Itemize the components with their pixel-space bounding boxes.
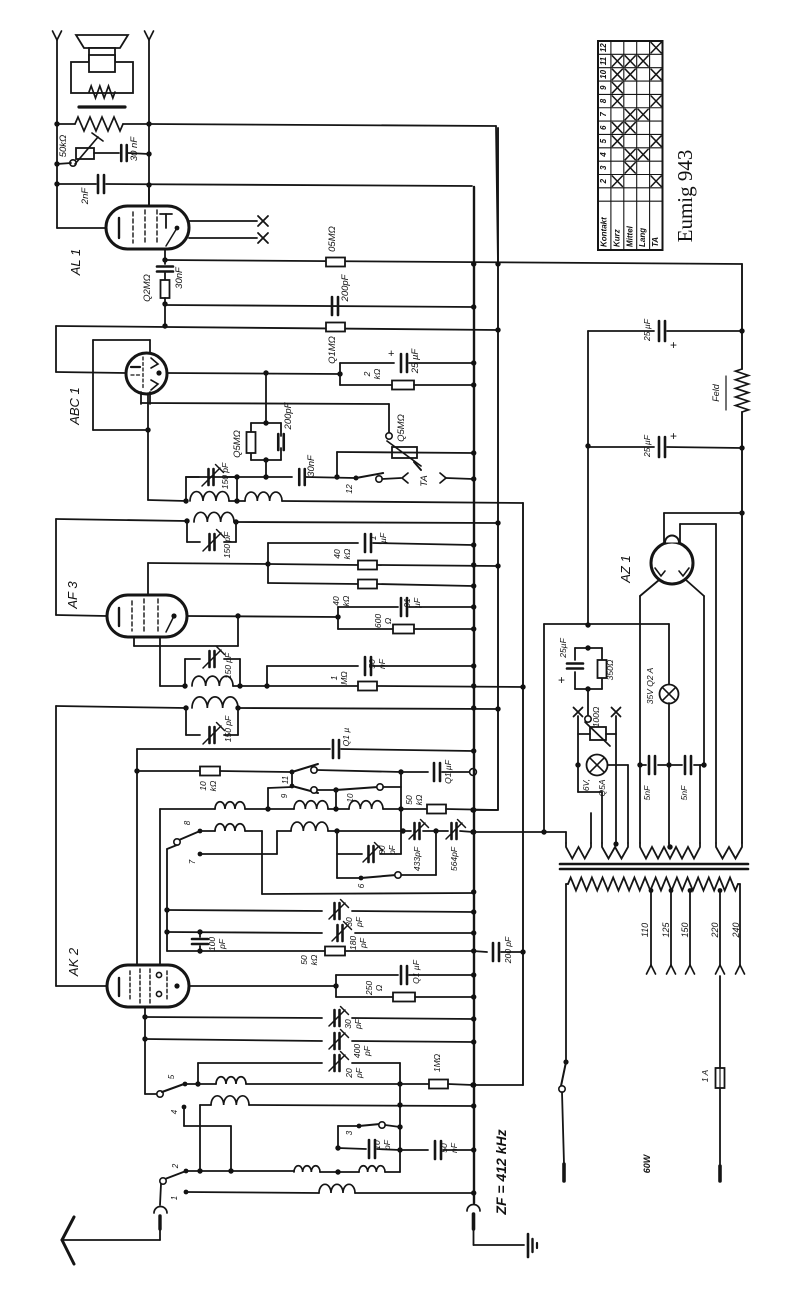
IF1 secondary trimmer box [187,521,236,542]
IF1 trimmer box [186,477,237,501]
junction [265,561,270,566]
svg-text:9: 9 [599,85,608,90]
svg-text:100Ω: 100Ω [591,706,601,727]
switch 5 [157,1082,188,1098]
wire AK2 frame left [136,749,138,965]
svg-text:1: 1 [170,1196,179,1200]
ant coil 1 [185,1077,400,1084]
junction [54,121,59,126]
tube ABC1 grid [131,357,143,390]
wire [383,786,401,788]
svg-text:+: + [670,338,677,352]
capacitor 30nF AL1 [157,260,173,280]
svg-text:100: 100 [207,937,217,951]
junction [265,806,270,811]
capacitor 30nF [299,469,355,485]
terminal 2 [184,1169,189,1174]
junction [471,748,476,753]
junction [471,1082,476,1087]
IF1 coil b [245,492,282,501]
label 25µF [642,318,677,352]
contact table frame [598,41,663,250]
anode box [335,975,337,997]
IF2 trimmer box [185,659,240,686]
capacitor 25µF [588,437,742,457]
junction [54,181,59,186]
junction [233,519,238,524]
junction [237,683,242,688]
junction [184,518,189,523]
wire row 2-line [186,1170,294,1172]
junction [471,1190,476,1195]
svg-text:9: 9 [280,793,289,798]
IF2 secondary trimmer box [186,708,238,735]
wire AF3 top [148,563,268,564]
svg-text:Eumig 943: Eumig 943 [673,150,697,243]
svg-text:50: 50 [367,659,377,669]
wire [262,831,473,894]
wire AZ1 anode top [664,513,742,545]
capacitor 100pF [192,932,208,951]
wire ABC1 left loop [56,326,126,373]
svg-text:ABC 1: ABC 1 [67,387,82,426]
svg-text:20: 20 [344,1068,354,1079]
junction [162,257,167,262]
svg-text:7: 7 [188,859,197,864]
capacitor 200pF [331,297,334,315]
wire grid AL1 [57,227,106,229]
junction [234,498,239,503]
trimmer 150pF [208,727,211,743]
label 25µF [388,348,421,375]
trafo tap forks [647,965,745,974]
wire [335,790,337,809]
xmark heater [574,708,621,717]
wire 1µF line [268,543,358,583]
label 25µF [642,429,677,458]
wire [446,478,473,479]
svg-text:6V,: 6V, [581,779,591,791]
svg-text:+: + [558,673,565,687]
junction [397,1147,402,1152]
svg-text:11: 11 [599,56,608,65]
trafo secondary 1 [566,813,591,859]
wire [352,911,473,912]
junction [398,769,403,774]
trimmer 30pF [333,1010,336,1026]
junction [337,371,342,376]
label Feld [711,376,726,410]
resistor 40kΩ b [268,580,473,589]
junction [471,382,476,387]
resistor 250Ω [336,993,473,1002]
trimmer 400pF [333,1033,336,1049]
svg-text:600: 600 [373,614,383,628]
mains switch [559,1059,569,1164]
junction [164,929,169,934]
wire [56,519,497,615]
junction [334,828,339,833]
svg-text:AZ 1: AZ 1 [618,555,633,583]
junction [471,1016,476,1021]
junction [333,787,338,792]
wire AK2 cathode [145,1007,158,1094]
bus second [497,128,499,810]
svg-text:400: 400 [352,1044,362,1058]
wire B+ top [741,264,743,369]
IF2 secondary coil [192,697,238,708]
wire screen loop [134,616,238,646]
junction [162,301,167,306]
contact table labels [599,217,660,247]
junction [471,705,476,710]
svg-text:Q1 µF: Q1 µF [443,759,453,784]
junction [739,328,744,333]
junction [471,360,476,365]
junction [585,443,590,448]
svg-text:5nF: 5nF [642,785,652,800]
wire [352,1041,473,1042]
wire lamp right [608,765,629,843]
potentiometer 50kΩ [70,133,103,166]
terminal 1 [184,1190,319,1195]
svg-text:11: 11 [281,776,290,784]
wire [317,770,401,772]
junction [471,1103,476,1108]
wire [401,831,436,875]
svg-text:µF: µF [378,532,388,543]
capacitor 0,1µF [401,763,470,781]
wire [668,703,670,843]
wire AL1 pin x [189,233,268,243]
junction [197,929,202,934]
svg-text:200pF: 200pF [283,401,294,430]
trafo tap 220 [718,888,723,965]
osc coil 2a [215,824,245,831]
svg-text:6: 6 [357,883,366,888]
osc coil 1c [349,801,383,809]
svg-text:1: 1 [329,675,339,680]
junction [335,1169,340,1174]
wire [741,513,743,843]
svg-text:01: 01 [402,598,412,608]
resistor 0,2MΩ [161,280,170,304]
wire [473,1084,523,1086]
svg-text:2: 2 [171,1163,180,1169]
junction [146,182,151,187]
wire 20pF row [198,1063,322,1084]
junction [520,949,525,954]
wire [291,772,293,784]
junction [197,948,202,953]
trimmer 150pF [208,534,211,550]
svg-text:kΩ: kΩ [208,780,218,791]
svg-text:10: 10 [198,781,208,791]
resistor speaker field tap [57,117,149,131]
wire [380,853,401,855]
wire row 400pF [145,1039,322,1041]
wire [741,412,743,513]
wire [268,787,292,809]
wire right speaker lead [145,31,154,206]
svg-text:2: 2 [599,178,608,184]
svg-text:125: 125 [661,922,671,938]
svg-text:220: 220 [710,922,720,938]
trafo primary [566,878,740,1063]
capacitor 5nF [648,756,651,774]
junction [433,828,438,833]
svg-text:AL 1: AL 1 [68,249,83,277]
junction [471,604,476,609]
junction [520,684,525,689]
junction [666,762,671,767]
wire ABC1 top box [93,340,150,430]
capacitor 2nF [57,175,472,193]
svg-text:MΩ: MΩ [339,671,349,685]
ant coil 4 [319,1184,355,1193]
resistor 0,5MΩ diode load [247,432,256,453]
wire [382,478,401,479]
wire [352,1018,473,1019]
junction [183,705,188,710]
wire [337,1126,339,1148]
trimmer 180pF [336,925,339,941]
junction [667,844,672,849]
wire row 30pF [145,1017,322,1018]
junction [471,261,476,266]
svg-text:35V Q2 A: 35V Q2 A [645,667,655,704]
junction [541,829,546,834]
wire 80pF row [337,831,362,878]
svg-text:pF: pF [354,916,364,928]
wire ABC1 cathode drop [147,394,149,500]
wire row y951 [167,950,325,952]
wire 200pF line [165,305,473,307]
svg-text:3: 3 [599,165,608,170]
resistor 2kΩ [340,381,473,390]
junction [575,762,580,767]
junction [471,930,476,935]
svg-text:433pF: 433pF [412,846,422,871]
junction [739,445,744,450]
svg-text:Kontakt: Kontakt [599,217,608,247]
junction [397,1081,402,1086]
mains lead [562,1164,566,1181]
svg-text:pF: pF [358,937,368,949]
tube AF3 cathode [118,608,120,626]
junction [263,474,268,479]
wire [587,331,589,446]
junction [471,829,476,834]
connector [154,1207,167,1230]
capacitor 30nF tone [121,145,149,161]
bus connector [467,1205,524,1246]
svg-text:8: 8 [599,98,608,103]
tube AK2 envelope [107,965,189,1007]
junction [235,705,240,710]
IF1 secondary coil [194,512,234,522]
osc row2 wire [200,830,404,832]
switch 9 [290,784,318,794]
junction [164,907,169,912]
junction [739,510,744,515]
tube ABC1 diode plates [151,358,162,390]
svg-text:Q1 µ: Q1 µ [341,728,351,747]
svg-text:Feld: Feld [711,383,721,402]
trimmer 150pF [208,651,211,667]
resistor 10kΩ [137,767,290,776]
junction [197,1168,202,1173]
tube AZ1 envelope [651,542,693,584]
wire [355,932,473,934]
svg-text:kΩ: kΩ [342,548,352,559]
svg-text:25µF: 25µF [558,637,568,658]
junction [471,562,476,567]
mains lead 2 [718,1166,722,1181]
wire AZ1 cath right [686,580,704,765]
resistor 0,5MΩ [326,258,345,267]
junction [398,806,403,811]
tube ABC1 cathode [131,366,140,368]
wire [320,1171,359,1173]
svg-text:kΩ: kΩ [372,368,382,379]
junction [195,1081,200,1086]
tube AK2 anode [174,983,179,988]
svg-text:30nF: 30nF [174,266,185,289]
svg-text:10: 10 [599,69,608,78]
output transformer [71,55,133,107]
junction [470,829,475,834]
junction [495,520,500,525]
switch 8 drop [167,845,177,951]
terminal 4 [182,1105,231,1171]
junction [637,762,642,767]
svg-text:40: 40 [332,549,342,559]
wire net [265,373,267,423]
tube AL1 grids [133,210,157,245]
svg-text:6: 6 [599,125,608,130]
tube AK2 cathode [118,978,120,996]
svg-text:Q5MΩ: Q5MΩ [396,414,407,442]
ant coil 3a [294,1166,320,1172]
wire center tap [668,843,670,848]
junction [235,613,240,618]
junction [145,427,150,432]
svg-text:350Ω: 350Ω [605,659,615,680]
switch 2 [160,1171,186,1184]
svg-text:kΩ: kΩ [309,954,319,965]
svg-text:40: 40 [331,596,341,606]
junction [495,706,500,711]
wire detector line [141,403,389,433]
svg-text:+: + [388,348,394,360]
svg-text:30nF: 30nF [306,454,317,477]
junction [471,807,476,812]
wire [587,446,589,625]
tube AL1 anode [160,214,179,246]
junction [471,972,476,977]
capacitor 50nF [400,1141,473,1159]
junction [471,583,476,588]
ground [528,1234,537,1257]
wire [266,666,268,686]
junction [334,474,339,479]
svg-text:pF: pF [362,1045,372,1057]
wire [164,304,166,326]
svg-text:200 pF: 200 pF [503,936,513,964]
junction [400,828,405,833]
switch 6 [337,872,401,881]
junction [146,121,151,126]
trimmer 150pF [207,469,210,485]
resistor 1MΩ [267,682,524,691]
junction [162,323,167,328]
junction [495,563,500,568]
IF1 coil a [190,492,229,501]
osc coil 2b [291,822,328,831]
wire [160,637,267,686]
osc coil 1b [294,801,328,809]
wire AL1 anode top [148,185,150,206]
wire [336,452,338,477]
tube AL1 envelope [106,206,189,249]
junction [263,457,268,462]
svg-text:60W: 60W [642,1153,652,1173]
terminal 7 [198,831,277,856]
junction [142,1014,147,1019]
junction [146,151,151,156]
wire [148,500,523,503]
wire [317,789,336,791]
trimmer 30pF [333,903,336,919]
bus fourth [543,624,545,832]
resistor 1MΩ [400,1080,473,1089]
svg-text:TA: TA [419,475,430,486]
svg-text:2: 2 [362,371,372,377]
wire AF3 anode [187,616,338,617]
junction [397,1102,402,1107]
wire hv line [544,623,669,625]
wire [159,809,161,965]
junction [335,1145,340,1150]
junction [134,768,139,773]
speaker [76,35,128,62]
svg-text:150 pF: 150 pF [220,462,230,489]
svg-text:pF: pF [217,938,227,950]
svg-text:200pF: 200pF [340,273,351,302]
wire AK2 frame top [137,748,330,750]
svg-text:12: 12 [344,484,354,494]
wire row y910 [167,910,322,911]
svg-text:ZF = 412 kHz: ZF = 412 kHz [493,1129,509,1215]
svg-text:10: 10 [372,1140,382,1150]
junction [701,762,706,767]
junction [470,1082,475,1087]
wire anode bus [165,260,742,264]
capacitor 50nF [267,657,473,675]
wire [352,1063,400,1084]
svg-text:180: 180 [348,936,358,950]
svg-text:5: 5 [167,1074,176,1079]
svg-text:kΩ: kΩ [414,794,424,805]
contact numbers [599,43,608,185]
wire ABC1 anode line [167,373,340,374]
capacitor 0,1µF [333,740,473,758]
capacitor 25µF [567,662,583,665]
label 25µF [558,637,568,687]
wire lamp left drop [578,765,602,843]
junction [471,909,476,914]
